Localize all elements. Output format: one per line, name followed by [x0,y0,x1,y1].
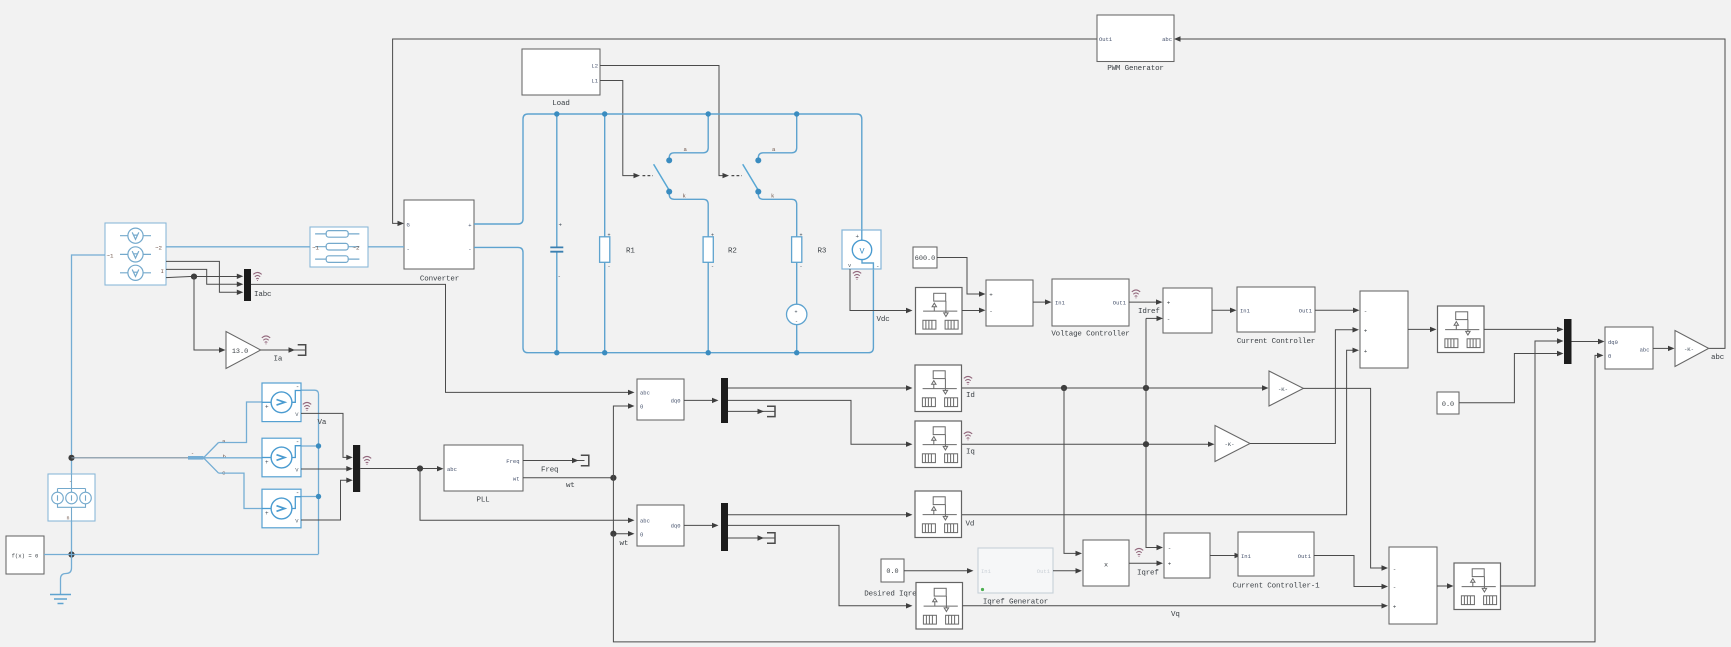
badge: Idref logging [1132,290,1140,299]
svg-text:+: + [1364,348,1368,355]
rate transition: Vd [915,491,962,538]
svg-text:a: a [222,438,226,445]
rate transition: output d [1438,306,1485,353]
svg-text:-: - [800,264,803,270]
block: PWM Generator [1097,15,1174,73]
wire: Vd to sum 3 [962,348,1359,515]
block: series RLC branch [310,227,368,267]
resistor R1 [600,114,636,353]
wire: ground branch [61,555,72,595]
svg-text:In1: In1 [1055,300,1066,307]
wire: Vdc measurement to rate transition [850,269,913,313]
voltmeter: Vdc measurement [842,230,881,270]
wire: wt up to abc-dq0 1 theta [613,403,634,478]
block: constant 600.0 [913,247,937,268]
svg-text:wt: wt [620,540,629,548]
node: junction Id to product [1061,385,1067,391]
node: blue bus junctions top [554,111,799,116]
wire: Id gain to sum 5 [1303,388,1388,570]
svg-text:-K-: -K- [1278,386,1288,393]
mux: dq0 recombine [1564,319,1572,364]
svg-text:-: - [69,479,72,485]
svg-text:L1: L1 [591,78,598,85]
svg-text:Id: Id [966,392,975,400]
svg-text:-: - [876,263,879,270]
wire: mux to PLL abc [360,466,443,471]
svg-text:-: - [1393,584,1397,591]
node: junction Id to sum2 [1143,385,1149,391]
svg-text:-: - [558,273,561,280]
sum: converter voltage d [1360,291,1408,368]
svg-text:Iqref: Iqref [1137,570,1159,578]
wire: 0 component to terminator 2 [728,533,775,543]
block: Current Controller [1237,287,1315,346]
wire: PLL wt [523,477,613,479]
svg-text:13.0: 13.0 [232,348,248,356]
svg-text:In1: In1 [1240,308,1251,315]
wire: Vabc down to abc-dq0 2 [420,469,635,524]
wire: PWM Out1 feedback to Converter gate G [393,39,1097,226]
svg-text:~2: ~2 [155,245,162,252]
wire: Load L2 to breaker 2 control [600,66,742,179]
svg-text:wt: wt [513,475,520,482]
svg-text:Out1: Out1 [1099,36,1113,43]
svg-text:Converter: Converter [420,276,459,284]
svg-text:Vq: Vq [1171,611,1180,619]
wire: 0.0 to mux 3 [1459,351,1564,403]
wire: VM1 v to mux [301,413,353,460]
sum: converter voltage q [1389,547,1437,624]
wire: gain to Ia terminator [261,345,306,355]
svg-text:dq0: dq0 [671,398,681,405]
badge: Vdc logging [853,271,861,280]
wire: VM3 minus stub [301,496,319,498]
svg-text:-: - [1364,308,1368,315]
wire: dq0 1 to demux 1 [684,398,719,403]
wire: d component to Vd rate transition [728,512,913,517]
svg-text:x: x [1104,562,1108,570]
badge: Id logging [964,376,972,385]
svg-text:+: + [800,233,803,239]
svg-text:I: I [161,268,164,275]
node: blue bus junctions bottom [554,350,799,355]
svg-text:-: - [191,451,194,457]
wire: 0.0 to Iqref Generator [904,568,974,573]
wire: Ia tap to gain [194,277,226,353]
svg-text:Ia: Ia [274,356,283,364]
svg-text:+: + [1393,603,1397,610]
svg-text:600.0: 600.0 [915,255,935,263]
svg-text:-: - [407,246,410,253]
wire: dq0-abc to gain abc [1653,346,1675,351]
svg-text:+: + [1364,327,1368,334]
block: Iqref Generator (faded) [978,548,1053,607]
rate transition: Vq [916,583,963,630]
svg-text:-: - [1393,566,1397,573]
svg-text:~1: ~1 [312,245,319,252]
wire: 0 component to terminator [728,406,775,416]
wire: Current Controller to sum 3 [1315,308,1360,313]
node: junction Iq [1143,441,1149,447]
svg-text:~2: ~2 [353,245,360,252]
node: blue junction VM3 minus [316,494,321,499]
wire: rate transition to mux 3 [1484,327,1564,332]
voltmeter VM1 Va [262,383,301,422]
wire: Vq to sum 5 [963,603,1389,608]
svg-text:-: - [468,246,471,253]
svg-text:Out1: Out1 [1299,308,1313,315]
wire: blue DC bus bottom [474,247,873,352]
svg-text:-: - [711,264,714,270]
wire: blue DC bus top [474,114,862,230]
svg-text:0.0: 0.0 [1442,401,1454,409]
gain: Iq -K- [1215,426,1250,462]
svg-text:θ: θ [1608,353,1611,360]
svg-text:n: n [67,516,70,522]
svg-text:+: + [795,310,798,316]
wire: mux 3 to dq0-abc [1572,339,1605,344]
svg-text:Iq: Iq [966,449,975,457]
wire: gain abc output up right edge into PWM abc input [1174,36,1725,348]
svg-text:In1: In1 [981,568,992,575]
mux: Vabc [353,445,360,492]
wire: q component to Vq rate transition [728,525,913,608]
block: Voltage Controller [1051,279,1129,339]
svg-text:~1: ~1 [107,253,114,260]
wire: VM2 minus stub [301,445,319,447]
svg-text:dq0: dq0 [1608,339,1618,346]
node: blue junction VM2 minus [316,443,321,448]
mux: Iabc [244,269,251,301]
svg-text:R2: R2 [728,248,737,256]
svg-text:0.0: 0.0 [886,568,898,576]
svg-text:PLL: PLL [476,497,490,505]
wire: blue net RLC ~2 to Converter left [368,246,404,248]
rate transition: Id [915,365,962,412]
svg-text:-: - [608,264,611,270]
block: three-phase VI measurement [105,223,166,285]
resistor R2 [703,233,737,353]
svg-text:V: V [859,246,864,256]
svg-text:abc: abc [1711,354,1724,362]
svg-text:θ: θ [640,531,643,538]
wire: Iq gain to sum 3 [1250,327,1359,443]
block: Converter [404,200,474,284]
wire: rate transition q to mux 3 [1501,338,1564,586]
svg-text:+: + [711,233,714,239]
gain: 13.0 [226,332,261,369]
svg-text:abc: abc [1640,346,1650,353]
svg-text:-: - [1168,545,1172,552]
block: Current Controller-1 [1232,532,1320,591]
node: phase fork [188,438,227,477]
node: junction neutral [68,551,74,557]
node: junction wt lower [610,531,616,537]
badge: Ia logging [262,336,270,345]
svg-text:Vd: Vd [966,521,975,529]
wire: VM3 v to mux [301,478,353,521]
block: f(x)=0 solver [6,536,44,574]
svg-text:Iabc: Iabc [254,291,271,299]
wire: sum 4 to Current Controller-1 [1210,553,1241,558]
wire: crossover vertical Id/Iq feedback [1146,316,1163,551]
svg-text:abc: abc [1162,36,1172,43]
svg-text:Freq: Freq [541,467,558,475]
breaker 1 [654,114,709,237]
demux: dq0 1 [721,378,728,423]
svg-text:Out1: Out1 [1037,568,1051,575]
rate transition: Iq [915,421,962,468]
svg-text:Current Controller: Current Controller [1237,338,1315,346]
svg-text:+: + [856,233,860,240]
block: product x [1083,540,1129,586]
svg-text:dq0: dq0 [671,523,681,530]
svg-text:Desired Iqref: Desired Iqref [864,591,921,599]
gain: Id -K- [1269,371,1303,406]
block: abc to dq0 transform 2 [637,505,684,546]
svg-text:-: - [1167,316,1171,323]
sum: current error d [1163,288,1212,333]
svg-text:G: G [407,222,410,229]
DC source in R3 branch [787,304,807,353]
wire: 600.0 to sum [937,258,986,297]
node: junction Ia tap [191,274,197,280]
svg-text:abc: abc [640,389,650,396]
badge: Iqref logging [1135,548,1143,557]
wire: blue net VI ~2 to RLC ~1 [166,246,310,248]
ground [50,595,71,604]
wire: solver link to neutral [44,554,72,556]
demux: dq0 2 [721,503,728,551]
block: PLL [444,445,523,505]
block: abc to dq0 transform 1 [637,379,684,420]
svg-text:+: + [559,222,563,229]
wire: sum 3 to rate transition [1408,327,1437,332]
svg-text:-: - [989,308,993,315]
wire: product to sum 4 [1129,561,1163,566]
svg-text:Out1: Out1 [1298,553,1312,560]
svg-text:-: - [795,319,798,325]
wire: sum 5 to rate transition q [1437,583,1454,588]
svg-text:L2: L2 [591,63,598,70]
wire: blue net VI ~1 to source column [72,255,106,474]
wire: fork feed line [72,457,189,459]
wire: Current Controller-1 to sum 5 [1314,556,1388,590]
breaker 2 [743,114,797,237]
badge: Iq logging [964,432,972,441]
wire: sum to Voltage Controller [1033,299,1052,304]
wire: Vdc rate transition to sum [962,308,986,313]
wire: phase b to VM2 [204,457,263,459]
block: constant 0.0 desired Iqref [881,559,904,582]
wire: source n to neutral and neutral line [72,521,319,555]
svg-text:b: b [223,454,227,461]
capacitor branch [550,114,563,353]
resistor R3 [792,233,827,305]
node: junction Vabc [417,465,423,471]
rate transition: output q [1454,563,1501,610]
wire: PLL Freq to terminator [523,455,589,465]
svg-text:+: + [1167,300,1171,307]
svg-text:+: + [1168,561,1172,568]
badge: Vabc logging [363,456,371,465]
wire: dq0 2 to demux 2 [684,523,719,528]
wire: wt loop to dq0-abc theta [613,353,1603,642]
wire: Idref to sum 2 [1129,299,1163,304]
svg-text:Voltage Controller: Voltage Controller [1051,331,1129,339]
wire: VM minus bus to neutral [301,390,319,554]
wire: Iqref Generator to product [1053,568,1082,573]
block: Load [522,49,600,108]
block: three-phase source [48,474,95,522]
wire: product input from Id junction [1064,388,1082,556]
svg-text:R3: R3 [818,248,827,256]
wire: Load L1 to breaker 1 control [600,81,653,179]
wire: Id rate transition output [962,385,1269,390]
rate transition: Vdc [916,288,963,335]
svg-text:Out1: Out1 [1113,300,1127,307]
svg-text:Idref: Idref [1138,308,1160,316]
svg-text:+: + [608,233,611,239]
wire: phase a to VM1 [219,402,263,443]
wire: Iabc to abc-dq0 1 [251,284,635,395]
badge: Va logging [303,402,311,411]
svg-text:Freq: Freq [506,458,519,465]
svg-text:-K-: -K- [1224,441,1234,448]
wire: sum 2 to Current Controller [1212,308,1237,313]
svg-text:Load: Load [552,100,569,108]
sum: current error q [1164,533,1210,578]
svg-text:R1: R1 [626,248,635,256]
wire: VI current outputs to Iabc mux [166,261,243,295]
wire: Iq rate transition output [962,442,1215,447]
svg-text:PWM Generator: PWM Generator [1107,65,1164,73]
voltmeter VM3 [262,489,301,528]
svg-text:+: + [989,292,993,299]
wire: d component to Id rate transition [728,385,913,390]
block: dq0 to abc transform [1605,327,1653,369]
node: junction fork tap [68,455,74,461]
wire: VM2 v to mux [301,466,353,471]
wire: phase c to VM3 [219,473,263,508]
svg-text:wt: wt [566,482,575,490]
svg-text:-K-: -K- [1684,346,1694,353]
svg-text:In1: In1 [1241,553,1252,560]
sum: voltage error [986,280,1033,326]
svg-text:Current Controller-1: Current Controller-1 [1232,583,1320,591]
block: constant 0.0 zero seq [1437,392,1459,414]
svg-text:abc: abc [640,517,650,524]
svg-text:Vdc: Vdc [877,316,890,324]
svg-text:+: + [468,222,471,229]
wire: wt down to abc-dq0 2 theta [613,478,634,537]
wire: q component to Iq rate transition [728,400,913,447]
badge: Iabc logging [253,272,261,281]
voltmeter VM2 [262,438,301,477]
svg-text:abc: abc [447,466,457,473]
svg-text:θ: θ [640,403,643,410]
svg-text:Va: Va [318,419,327,427]
gain: abc -K- [1675,331,1709,367]
svg-text:f(x) = 0: f(x) = 0 [12,553,39,560]
node: junction wt [610,475,616,481]
